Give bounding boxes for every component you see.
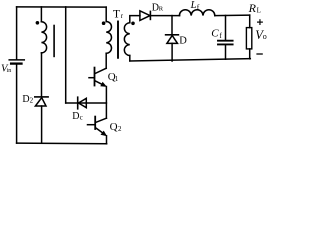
svg-text:r: r — [121, 12, 124, 20]
wire Cf to bottom rail — [225, 45, 227, 59]
dot feedback winding polarity — [36, 21, 40, 25]
wire D branch down — [171, 16, 173, 34]
svg-text:c: c — [80, 114, 83, 122]
svg-text:D: D — [22, 94, 29, 105]
svg-text:R: R — [159, 6, 164, 13]
wire D2 to bottom rail — [41, 106, 43, 143]
svg-text:f: f — [219, 31, 222, 40]
transistor Q2 base bar — [94, 117, 96, 129]
svg-text:1: 1 — [115, 75, 119, 83]
diode D2 triangle — [35, 98, 46, 106]
diode Dc cathode bar — [77, 97, 79, 109]
wire secondary top stub — [130, 16, 140, 23]
wire Cf branch — [225, 16, 227, 41]
transformer Tr primary winding — [106, 22, 111, 54]
wire RL to bottom rail — [249, 49, 251, 59]
svg-text:D: D — [179, 35, 187, 46]
wire DR to Lf — [151, 15, 180, 17]
svg-text:D: D — [72, 111, 79, 122]
svg-text:R: R — [248, 1, 257, 15]
transistor Q2 emitter lead — [96, 128, 105, 134]
wire bottom rail — [17, 142, 107, 145]
wire feedback winding down to D2 — [41, 53, 43, 97]
transistor Q1 base bar — [94, 68, 96, 86]
capacitor Cf plate top — [218, 40, 233, 42]
diode D triangle — [167, 36, 178, 44]
transistor Q1 emitter lead — [95, 81, 104, 86]
transistor Q2 base lead — [88, 124, 95, 126]
wire Dc line — [66, 102, 107, 104]
svg-text:2: 2 — [118, 125, 122, 133]
diode DR triangle — [140, 11, 150, 21]
wire mid-left column — [65, 7, 67, 103]
wire Q2 emitter down — [106, 136, 108, 144]
dot Tr primary polarity — [102, 21, 106, 25]
inductor feedback winding — [41, 22, 46, 53]
wire D to bottom rail — [171, 43, 173, 61]
battery Vin plate long — [9, 59, 24, 61]
diode Dc triangle — [79, 98, 87, 107]
wire Tr primary top stub — [105, 7, 107, 21]
resistor RL — [246, 28, 251, 49]
svg-text:o: o — [263, 32, 267, 41]
wire feedback-winding stub — [40, 7, 42, 22]
wire RL branch top — [249, 15, 251, 28]
svg-text:L: L — [190, 0, 197, 11]
diode D cathode bar — [166, 34, 179, 36]
diode DR cathode bar — [149, 11, 151, 19]
diode D2 cathode bar — [35, 96, 48, 98]
svg-text:Q: Q — [110, 121, 118, 133]
svg-text:L: L — [257, 6, 261, 14]
wire secondary bottom rail — [130, 59, 251, 61]
core bar transformer — [117, 22, 119, 58]
transistor Q1 emitter arrow — [101, 83, 106, 87]
wire secondary bottom stub — [129, 56, 131, 61]
transistor Q2 emitter arrow — [101, 131, 106, 135]
svg-text:2: 2 — [30, 96, 34, 104]
svg-text:in: in — [7, 68, 12, 74]
wire Q1 emitter down to Q2 collector — [105, 87, 107, 119]
wire Lf to output corner — [215, 14, 250, 17]
transformer Tr secondary winding — [124, 23, 129, 56]
capacitor Cf plate bottom — [218, 43, 233, 45]
svg-text:T: T — [113, 9, 120, 21]
transistor Q1 base lead — [89, 77, 94, 79]
wire top-left rail — [17, 6, 107, 8]
label plus — [257, 19, 263, 25]
wire left battery column bottom — [16, 65, 18, 143]
core bar feedback winding — [53, 26, 55, 57]
svg-text:C: C — [211, 28, 219, 40]
label minus — [256, 53, 262, 55]
transistor Q1 collector lead — [95, 68, 106, 73]
wire left battery column top — [16, 7, 18, 59]
battery Vin plate short — [11, 62, 21, 64]
dot Tr secondary polarity — [131, 22, 135, 26]
inductor Lf — [179, 10, 214, 16]
wire Tr primary bottom stub — [105, 53, 107, 68]
transistor Q2 collector lead — [96, 118, 106, 122]
